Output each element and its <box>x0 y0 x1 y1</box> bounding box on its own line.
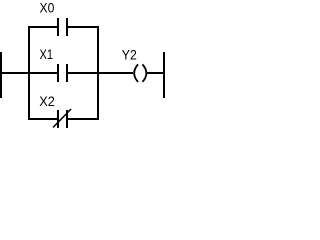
svg-text:X0: X0 <box>40 0 55 16</box>
svg-text:Y2: Y2 <box>122 47 137 63</box>
svg-text:X2: X2 <box>39 93 55 109</box>
svg-text:X1: X1 <box>40 46 54 62</box>
